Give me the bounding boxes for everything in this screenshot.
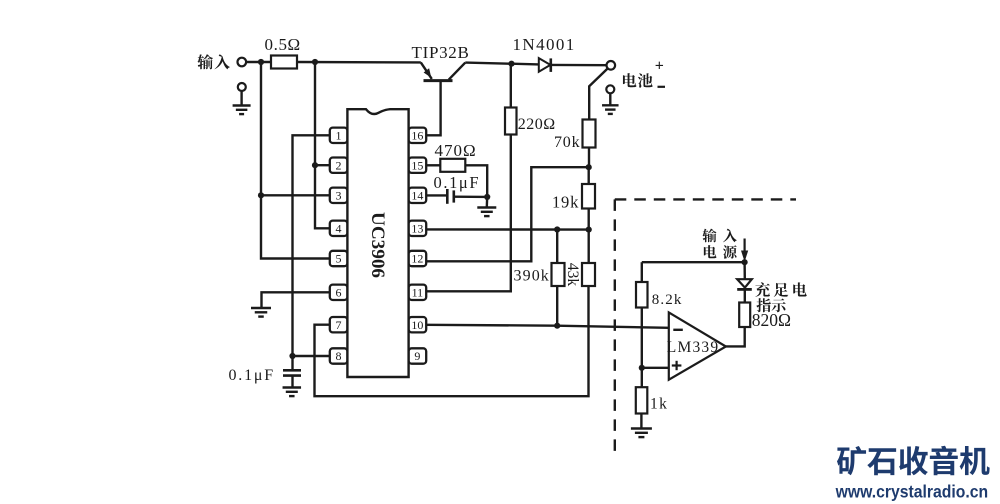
wire: node to diode anode [512, 63, 540, 66]
wire: pin6 to ground [262, 292, 331, 307]
wire: rail to 8.2k [641, 262, 643, 282]
svg-text:3: 3 [336, 189, 342, 203]
wire: pin8 node to capacitor [291, 356, 293, 369]
supply arrow head [741, 251, 748, 262]
node F junction (390k/pin10) [554, 323, 560, 329]
resistor 820Ω [739, 303, 750, 328]
node D junction (19k/43k/pin13) [586, 227, 592, 233]
node A junction [258, 59, 264, 65]
pin 2 box [330, 158, 348, 173]
label 电源 [704, 245, 717, 258]
svg-text:43k: 43k [564, 263, 581, 287]
wire: 19k to node D [588, 209, 590, 230]
pin 6 box [330, 285, 348, 300]
pin 10 box [409, 317, 427, 332]
transistor Q1 emitter arrow [424, 68, 432, 78]
svg-text:TIP32B: TIP32B [412, 43, 470, 62]
svg-text:5: 5 [336, 252, 342, 266]
wire: 820Ω to op-amp output [726, 327, 745, 346]
svg-text:11: 11 [412, 286, 424, 300]
resistor 0.5Ω [271, 56, 297, 69]
wire: pin12 route to node C [426, 167, 589, 261]
wire: LED anode lead [743, 262, 746, 278]
wire: to pin 2 [315, 164, 330, 166]
pin 11 box [409, 285, 427, 300]
ground (input) [233, 104, 251, 106]
resistor 8.2k [636, 282, 648, 308]
node C junction (70k/19k) [586, 164, 592, 170]
svg-text:4: 4 [336, 222, 342, 236]
svg-text:19k: 19k [552, 192, 579, 211]
wire: 70k to node C [588, 148, 590, 168]
input ground terminal circle [238, 83, 246, 91]
wire: pin16 to transistor base [426, 82, 440, 136]
op-amp U1 body (UC3906 IC outline) [347, 109, 408, 377]
wire: node D to 43k [588, 230, 590, 263]
input terminal 输入 [238, 58, 247, 67]
label 输入 (input) [197, 54, 213, 69]
pin 15 box [409, 158, 427, 173]
label 电池 [623, 73, 636, 87]
wire: pin1 to left bus [293, 135, 331, 356]
diode D1 cathode bar [549, 58, 552, 72]
wire: 1k to ground [640, 414, 642, 429]
wire: supply rail [642, 261, 745, 263]
label 指示 [756, 298, 770, 312]
capacitor 0.1µF (pin8) [283, 369, 301, 372]
svg-text:0.1μF: 0.1μF [434, 173, 481, 192]
transistor Q1 TIP32B base bar [424, 79, 453, 82]
wire: pin14 to capacitor [426, 194, 447, 196]
resistor 220Ω [505, 108, 517, 135]
wire: node A bus down to pin3 [260, 62, 262, 195]
svg-text:220Ω: 220Ω [518, 116, 556, 133]
wire: pin13 line [426, 228, 589, 231]
battery + terminal [607, 61, 616, 70]
svg-text:www.crystalradio.cn: www.crystalradio.cn [835, 481, 988, 501]
pin 1 box [330, 128, 348, 143]
svg-text:7: 7 [336, 318, 342, 332]
node diode/220Ω junction [508, 61, 514, 67]
op-amp U2 plus sign [672, 364, 682, 366]
wire: node to 220Ω top [510, 64, 512, 108]
node G junction (plus input) [639, 365, 645, 371]
svg-text:9: 9 [414, 349, 420, 363]
label 充足电 [755, 282, 770, 297]
resistor 470Ω [440, 159, 465, 172]
label 输入 (supply) [702, 229, 716, 243]
svg-text:0.1μF: 0.1μF [229, 367, 275, 384]
supply arrow stem [743, 239, 745, 252]
dashed boundary horizontal [615, 198, 796, 200]
svg-text:390k: 390k [514, 267, 550, 284]
ground (pin14) [477, 206, 496, 208]
wire: node H ground stem [486, 197, 489, 207]
svg-text:16: 16 [411, 129, 423, 143]
svg-text:0.5Ω: 0.5Ω [265, 35, 301, 54]
wire: ground terminal stem [240, 91, 242, 105]
node E junction (390k top) [554, 226, 560, 232]
ground (1k) [631, 427, 652, 429]
ground (0.1µF) [283, 386, 302, 388]
pin 14 box [409, 188, 427, 203]
wire: bus to pin 8 [293, 355, 331, 357]
svg-text:12: 12 [411, 252, 423, 266]
LED D2 cathode bar [737, 288, 752, 291]
wire: 470Ω to node H [465, 165, 487, 197]
pin 8 box [330, 348, 348, 363]
pin 4 box [330, 221, 348, 236]
wire: diode to battery terminal [551, 64, 607, 67]
wire: battery + to 70k [589, 69, 607, 120]
node B junction [312, 59, 318, 65]
watermark 矿石收音机 [837, 446, 866, 475]
wire: collector to diode node [465, 63, 511, 64]
resistor 390k [552, 263, 565, 286]
wire: pin15 to 470Ω [426, 164, 440, 166]
resistor 43k [582, 263, 595, 286]
transistor Q1 collector [449, 63, 466, 80]
wire: pin10 comparator line [426, 325, 669, 328]
svg-text:6: 6 [336, 286, 342, 300]
svg-text:13: 13 [411, 222, 423, 236]
node H junction (cap/ground) [484, 194, 490, 200]
wire: bus down to pin4 [315, 165, 330, 228]
svg-text:70k: 70k [554, 134, 580, 151]
node pin8 junction [289, 353, 295, 359]
wire: capacitor to node H [454, 195, 487, 198]
wire: to pin 3 [261, 194, 330, 196]
svg-text:14: 14 [411, 189, 423, 203]
dashed boundary vertical [614, 199, 616, 451]
wire: 220Ω bottom to pin11 [426, 135, 511, 292]
capacitor 0.1µF (pin14) [446, 189, 449, 204]
label battery &#8722; [658, 86, 666, 88]
LED D2 triangle [737, 279, 752, 287]
ground (pin 6) [251, 307, 271, 309]
svg-text:8.2k: 8.2k [652, 292, 683, 308]
resistor 1k [636, 387, 648, 413]
svg-text:820Ω: 820Ω [752, 310, 791, 330]
resistor 19k [582, 184, 595, 209]
wire: plus input [642, 367, 669, 369]
wire: node B down to pin2 [314, 62, 316, 165]
wire: 390k to pin10 line [556, 286, 558, 326]
wire: plus node to 1k [641, 368, 643, 387]
op-amp U2 LM339 triangle [669, 312, 726, 379]
svg-text:2: 2 [336, 158, 342, 172]
ground (battery -) [602, 104, 619, 106]
transistor Q1 emitter [421, 62, 432, 79]
wire: 0.5Ω to transistor emitter [297, 61, 421, 64]
svg-text:10: 10 [411, 318, 423, 332]
pin 5 box [330, 251, 348, 266]
svg-text:UC3906: UC3906 [367, 212, 387, 278]
node pin2 junction [312, 162, 318, 168]
wire: bus down to pin5 level [261, 195, 330, 258]
wire: 8.2k to plus node [641, 308, 643, 368]
wire: input terminal to node A [246, 61, 271, 63]
svg-text:1: 1 [336, 129, 342, 143]
wire: node C to 19k [588, 167, 590, 184]
pin 12 box [409, 251, 427, 266]
diode D1 1N4001 triangle [539, 58, 551, 72]
node supply rail junction [742, 259, 748, 265]
pin 9 box [409, 348, 427, 363]
pin 16 box [409, 128, 427, 143]
svg-text:470Ω: 470Ω [435, 141, 477, 160]
battery - terminal [606, 85, 614, 93]
wire: battery - stem [609, 93, 611, 104]
pin 7 box [330, 317, 348, 332]
svg-text:15: 15 [411, 158, 423, 172]
wire: node E to 390k [556, 230, 558, 264]
wire: LED to 820Ω [744, 291, 746, 303]
svg-text:1N4001: 1N4001 [513, 35, 576, 54]
pin 13 box [409, 221, 427, 236]
svg-text:1k: 1k [650, 396, 668, 413]
wire: capacitor to ground [291, 376, 293, 387]
wire: pin7 bottom route to 43k [315, 286, 589, 396]
node pin3 junction [258, 192, 264, 198]
resistor 70k [583, 120, 596, 148]
op-amp U2 minus sign [673, 329, 683, 331]
svg-text:LM339: LM339 [667, 339, 720, 356]
pin 3 box [330, 188, 348, 203]
svg-text:+: + [655, 58, 664, 75]
svg-text:8: 8 [336, 349, 342, 363]
